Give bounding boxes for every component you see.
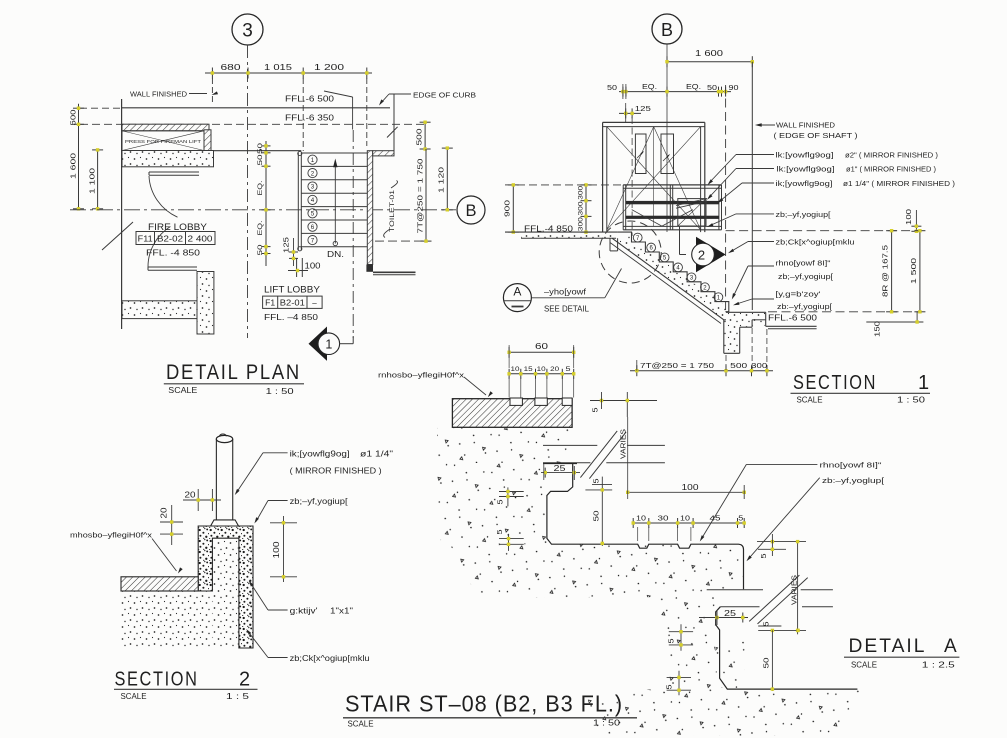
dashed level y185 [505, 184, 623, 186]
lower step profile [716, 607, 858, 689]
svg-text:LIFT LOBBY: LIFT LOBBY [264, 285, 321, 296]
svg-text:DETAIL: DETAIL [849, 636, 927, 657]
svg-text:10: 10 [537, 366, 546, 373]
svg-text:STAIR ST–08 (B2, B3 FL.): STAIR ST–08 (B2, B3 FL.) [345, 691, 623, 717]
grid bubble 3 [232, 14, 263, 45]
up arrow line [334, 164, 336, 244]
shaft X diagonals [607, 127, 701, 230]
grid line 3 [247, 45, 249, 338]
dim 1600 [667, 61, 752, 63]
dim 8R@167.5 [891, 231, 893, 312]
svg-text:20: 20 [550, 366, 559, 373]
upper door swing [149, 176, 178, 217]
extension line x303 [302, 78, 304, 151]
toilet wall bottom [373, 271, 416, 273]
svg-text:8R @ 167.5: 8R @ 167.5 [881, 245, 890, 297]
svg-text:1 600: 1 600 [695, 49, 724, 58]
svg-text:–yho[yowf: –yho[yowf [544, 288, 587, 297]
svg-text:ø1" ( MIRROR FINISHED ): ø1" ( MIRROR FINISHED ) [846, 165, 936, 174]
svg-text:1 015: 1 015 [264, 63, 293, 72]
svg-text:B2-02: B2-02 [157, 235, 184, 244]
svg-text:1 500: 1 500 [909, 258, 918, 284]
stair top wall hatch [373, 151, 394, 156]
concrete below floor [121, 592, 212, 649]
dim 300x3 [585, 185, 587, 232]
svg-text:2 400: 2 400 [188, 235, 214, 244]
floor right of curb [766, 325, 817, 327]
svg-text:ø2" ( MIRROR FINISHED ): ø2" ( MIRROR FINISHED ) [845, 151, 939, 160]
dim 50 lower [771, 630, 773, 691]
svg-text:FFL. -4 850: FFL. -4 850 [146, 249, 201, 258]
svg-text:50: 50 [762, 658, 771, 669]
svg-text:30: 30 [658, 516, 669, 523]
dim 25 lower [699, 617, 748, 619]
svg-text:VARIES: VARIES [621, 429, 628, 459]
long ext x797.6 [797, 542, 799, 635]
svg-text:150: 150 [873, 321, 882, 337]
stringer stipple [612, 236, 729, 320]
svg-text:10: 10 [680, 516, 690, 523]
dim 1120 [446, 148, 448, 210]
left dim 500 / 1600 [78, 104, 80, 210]
handrail post [215, 439, 217, 520]
left stair dim chain [265, 141, 267, 266]
dashed level line y124 [80, 123, 425, 125]
dim 100 (section 2) [283, 516, 285, 582]
post base plate [211, 520, 239, 526]
svg-text:B2-01: B2-01 [280, 299, 306, 308]
svg-text:50: 50 [257, 154, 264, 166]
balustrade bottom rail [623, 225, 721, 227]
svg-text:[y,g=b'zoy': [y,g=b'zoy' [776, 290, 822, 299]
wall end cap [366, 265, 373, 272]
svg-text:300: 300 [578, 185, 585, 200]
lift shaft box [602, 122, 604, 232]
wall break slash [102, 222, 133, 250]
svg-text:( EDGE OF SHAFT ): ( EDGE OF SHAFT ) [774, 131, 859, 140]
svg-text:1: 1 [311, 157, 315, 164]
stair handrail (plan) [297, 153, 299, 251]
door centre line [653, 127, 655, 227]
svg-text:50: 50 [257, 244, 264, 256]
svg-text:EQ.: EQ. [257, 180, 264, 195]
curb beam profile [723, 320, 725, 354]
svg-text:1 600: 1 600 [69, 153, 78, 179]
lobby wall line [214, 150, 302, 152]
svg-text:FFL.-6 500: FFL.-6 500 [768, 313, 818, 322]
curb core stipple [213, 539, 239, 647]
grid line B (section) [666, 44, 668, 232]
svg-text:DETAIL PLAN: DETAIL PLAN [166, 361, 301, 384]
svg-text:FFL.-6 350: FFL.-6 350 [285, 114, 335, 123]
svg-text:100: 100 [682, 483, 700, 492]
svg-text:ik;[yowflg9og]: ik;[yowflg9og] [290, 450, 350, 459]
dim 7T@250 = 1750 (section) [630, 370, 773, 372]
stair steps (section) [618, 232, 729, 312]
svg-text:125: 125 [635, 104, 651, 113]
balustrade brace [632, 210, 662, 227]
dimension line 680 / 1015 / 1200 [205, 72, 372, 74]
svg-text:300: 300 [751, 361, 767, 370]
svg-text:FFL.-6 500: FFL.-6 500 [285, 95, 335, 104]
dim 150 [916, 312, 918, 322]
svg-text:5: 5 [311, 211, 315, 218]
svg-text:100: 100 [305, 262, 322, 271]
dashed line y241 [375, 240, 426, 242]
fireman lift hatch band [122, 124, 209, 131]
floor finish hatch (section 2) [121, 577, 198, 591]
floor pocket [609, 238, 611, 251]
lower door swing [148, 227, 170, 268]
tread numbers [308, 155, 317, 164]
balustrade panel [678, 199, 706, 226]
break symbol 2 [749, 575, 799, 621]
tread with grooves [636, 544, 744, 589]
svg-text:90: 90 [729, 83, 739, 92]
dim row 10/30/10/45/5 [633, 522, 744, 524]
svg-text:1"x1": 1"x1" [330, 607, 353, 616]
lower wall band [122, 301, 197, 319]
svg-text:zb;Ck[x^ogiup[mklu: zb;Ck[x^ogiup[mklu [776, 238, 855, 247]
svg-text:zb:–yf,yogiup[: zb:–yf,yogiup[ [777, 302, 833, 311]
section flag 2 [696, 237, 726, 273]
svg-text:–: – [312, 299, 317, 308]
svg-text:WALL FINISHED: WALL FINISHED [130, 90, 187, 99]
svg-text:zb;–yf,yogiup[: zb;–yf,yogiup[ [290, 497, 349, 506]
svg-text:ik;[yowflg9og]: ik;[yowflg9og] [776, 179, 833, 188]
dim 60 [509, 351, 574, 353]
svg-text:7T@250 = 1 750: 7T@250 = 1 750 [640, 361, 714, 370]
svg-text:zb;–yf,yogiup[: zb;–yf,yogiup[ [778, 272, 834, 281]
svg-text:500: 500 [730, 361, 747, 370]
svg-text:680: 680 [221, 63, 242, 72]
svg-text:25: 25 [724, 609, 737, 618]
stair treads (plan) [301, 152, 368, 154]
svg-text:PRESS FOR FIREMAN LIFT: PRESS FOR FIREMAN LIFT [125, 139, 201, 144]
svg-text:TOILET-01: TOILET-01 [389, 189, 396, 232]
dim 5/50 upper [601, 477, 603, 546]
lower door leaf [148, 266, 197, 268]
dim 125 (section) [619, 112, 641, 114]
section flag 1 [352, 130, 354, 338]
svg-text:SCALE: SCALE [797, 395, 823, 404]
dim 25 upper [541, 472, 580, 474]
lift lobby sign box [263, 296, 323, 308]
svg-text:10: 10 [511, 366, 520, 373]
upper step profile [543, 464, 636, 545]
svg-text:EDGE OF CURB: EDGE OF CURB [413, 91, 476, 100]
svg-text:3: 3 [311, 184, 315, 191]
fire lobby sign box [136, 232, 215, 245]
svg-text:5: 5 [593, 407, 600, 412]
dashed level y230.7 [726, 230, 922, 232]
left dim 1100 [97, 149, 99, 210]
svg-text:A: A [513, 285, 521, 299]
svg-text:B: B [465, 202, 476, 220]
svg-text:500: 500 [415, 129, 424, 146]
svg-text:5: 5 [764, 621, 771, 626]
upper door leaf [149, 171, 199, 173]
curb edge vertical [393, 94, 395, 151]
balustrade stiles [622, 185, 624, 230]
svg-text:2: 2 [698, 247, 705, 262]
svg-text:5: 5 [667, 684, 674, 689]
curb break slash [387, 127, 398, 138]
svg-text:1: 1 [918, 372, 929, 394]
lift wall stipple band [122, 151, 214, 167]
svg-text:100: 100 [904, 209, 913, 225]
extension line x367 [366, 78, 368, 146]
svg-text:1 200: 1 200 [314, 63, 345, 72]
dim row 10/15/10/20/5 [509, 373, 574, 375]
svg-text:50: 50 [707, 83, 717, 92]
svg-text:EQ.: EQ. [257, 220, 264, 235]
svg-text:SCALE: SCALE [348, 720, 374, 729]
dim 5 cluster mid [758, 625, 781, 627]
dim 5 cluster left A [669, 631, 693, 633]
svg-text:5: 5 [498, 499, 505, 504]
grid bubble B (section) [652, 14, 682, 44]
balustrade top rail [623, 184, 721, 186]
svg-text:lk:[yowflg9og]: lk:[yowflg9og] [777, 165, 835, 174]
svg-text:5: 5 [669, 638, 676, 643]
svg-text:DN.: DN. [327, 250, 344, 259]
svg-text:5: 5 [738, 516, 743, 523]
lift jamb hatch [204, 130, 211, 151]
svg-text:SECTION: SECTION [793, 372, 877, 394]
svg-text:mhosbo–yflegiH0f^x: mhosbo–yflegiH0f^x [70, 531, 152, 540]
dim 5 cluster right upper [757, 541, 806, 543]
dim 20 horizontal [183, 499, 221, 501]
svg-text:rnhosbo–yflegiH0f^x: rnhosbo–yflegiH0f^x [378, 371, 464, 380]
break symbol 1 [580, 431, 617, 478]
svg-text:5: 5 [761, 553, 768, 558]
svg-text:rhno[yowf 8I]": rhno[yowf 8I]" [776, 259, 831, 268]
svg-text:5: 5 [566, 366, 571, 373]
svg-text:60: 60 [535, 342, 549, 351]
svg-text:( MIRROR FINISHED ): ( MIRROR FINISHED ) [290, 467, 382, 476]
svg-text:1 120: 1 120 [437, 167, 446, 193]
lift door panels [635, 134, 646, 174]
svg-text:ø1 1/4" ( MIRROR FINISHED ): ø1 1/4" ( MIRROR FINISHED ) [843, 179, 956, 188]
svg-text:300: 300 [578, 217, 585, 232]
stringer soffit [612, 238, 724, 319]
dim 900 [512, 185, 514, 232]
svg-text:5: 5 [593, 478, 600, 483]
grid bubble B (plan) [457, 196, 485, 224]
dim 500 (plan right) [424, 122, 426, 149]
dim 7T@250 = 1750 (plan) [425, 149, 427, 241]
svg-text:7T@250 = 1 750: 7T@250 = 1 750 [416, 159, 425, 234]
extension lines to nosing block [508, 378, 510, 398]
svg-text:7: 7 [311, 237, 315, 244]
svg-text:F1: F1 [265, 299, 276, 308]
svg-text:1 : 50: 1 : 50 [593, 719, 621, 728]
dashed level y311.8 [768, 311, 922, 313]
svg-text:rhno[yowf 8I]": rhno[yowf 8I]" [820, 461, 882, 470]
step numbers (section) [633, 233, 642, 242]
landing break lines upper [543, 444, 597, 446]
svg-text:15: 15 [524, 366, 533, 373]
nosing grooves [510, 398, 522, 405]
svg-text:1 : 2.5: 1 : 2.5 [922, 661, 956, 670]
svg-text:10: 10 [636, 516, 646, 523]
svg-text:300: 300 [578, 201, 585, 216]
dashed vertical x725.6 [725, 85, 727, 312]
wall finish line [122, 107, 390, 109]
svg-text:SCALE: SCALE [121, 692, 147, 701]
svg-text:EQ.: EQ. [642, 82, 657, 91]
dim 100 (detail A) [628, 491, 745, 493]
stair side wall hatch [367, 151, 372, 265]
svg-text:zb;–yf,yogiup[: zb;–yf,yogiup[ [776, 210, 832, 219]
centre line B (plan) [70, 209, 456, 211]
detail circle (dashed) [599, 221, 661, 283]
svg-text:A: A [944, 636, 957, 657]
fireman lift car box [122, 131, 204, 151]
svg-text:25: 25 [554, 464, 567, 473]
break lines lower [707, 589, 763, 591]
svg-text:125: 125 [282, 237, 291, 253]
svg-text:2: 2 [239, 669, 250, 691]
svg-text:1 100: 1 100 [88, 168, 97, 194]
dim 5 cluster left upper [507, 487, 509, 506]
extension line x212 [211, 78, 213, 104]
dim 20 vertical [171, 505, 173, 545]
svg-text:zb:–yf,yoglup[: zb:–yf,yoglup[ [822, 476, 885, 485]
dim 5 cluster left mid [508, 534, 510, 551]
nosing block (hatched) [452, 399, 572, 428]
svg-text:6: 6 [311, 224, 315, 231]
svg-text:B: B [661, 20, 673, 40]
dim 5 cluster left B [667, 676, 691, 678]
dim 1500 [919, 231, 921, 312]
lower wall column [197, 272, 214, 335]
nosing dashed line x632 [631, 117, 633, 236]
svg-text:F11: F11 [138, 235, 154, 244]
detail bubble A [503, 284, 531, 312]
svg-text:50: 50 [592, 511, 601, 522]
svg-text:20: 20 [185, 491, 197, 500]
svg-text:2: 2 [311, 170, 315, 177]
small 5 dim cluster [590, 400, 657, 402]
svg-text:1 : 5: 1 : 5 [226, 692, 250, 701]
svg-text:EQ.: EQ. [686, 82, 701, 91]
stipple concrete detail A [437, 428, 572, 463]
extension dashed x752 x758 [751, 328, 753, 371]
svg-text:ø1 1/4": ø1 1/4" [360, 450, 393, 459]
svg-text:1: 1 [325, 337, 332, 351]
svg-text:20: 20 [160, 507, 169, 519]
svg-text:1 : 50: 1 : 50 [266, 387, 295, 396]
svg-text:zb;Ck[x^ogiup[mklu: zb;Ck[x^ogiup[mklu [290, 654, 370, 663]
svg-text:500: 500 [69, 110, 78, 126]
svg-text:900: 900 [503, 200, 512, 217]
svg-text:lk:[yowflg9og]: lk:[yowflg9og] [776, 151, 834, 160]
handrail bars [626, 201, 719, 204]
plan dim 100 [288, 270, 308, 272]
svg-text:50: 50 [257, 142, 264, 154]
wall face left vertical [121, 99, 123, 329]
svg-text:3: 3 [242, 21, 253, 42]
svg-text:g:ktijv': g:ktijv' [290, 607, 319, 616]
floor slab (landing) [505, 231, 618, 233]
svg-text:WALL FINISHED: WALL FINISHED [776, 121, 836, 130]
svg-text:SCALE: SCALE [851, 661, 877, 670]
svg-text:50: 50 [607, 83, 617, 92]
svg-text:4: 4 [311, 197, 315, 204]
svg-text:100: 100 [272, 541, 281, 559]
svg-text:1 : 50: 1 : 50 [897, 395, 926, 404]
svg-text:SECTION: SECTION [115, 669, 199, 691]
svg-text:5: 5 [497, 529, 504, 534]
wall line right [751, 62, 753, 310]
extension dashed x726 x637 [725, 355, 727, 371]
curb mortar band (dense stipple) [198, 526, 253, 648]
svg-text:FFL. –4 850: FFL. –4 850 [264, 313, 319, 322]
dim row 50/EQ/EQ/50/90 [619, 91, 731, 93]
svg-text:SEE DETAIL: SEE DETAIL [544, 305, 590, 314]
svg-text:SCALE: SCALE [168, 386, 197, 395]
